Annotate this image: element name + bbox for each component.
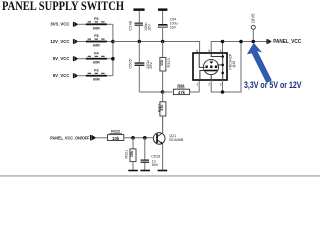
wire 3V3 row — [78, 23, 113, 25]
wire bus left vertical — [112, 24, 114, 75]
fuse F4 60R — [86, 51, 107, 64]
capacitor C94 (electrolytic) — [158, 11, 177, 42]
svg-text:4: 4 — [220, 49, 222, 53]
svg-text:PANEL_VCC_ON/OFF: PANEL_VCC_ON/OFF — [50, 135, 89, 140]
wire main rail left segment — [113, 42, 200, 54]
pin numbers top — [196, 49, 221, 53]
resistor R311 33k — [157, 92, 166, 133]
resistor R58 47k — [163, 84, 200, 95]
svg-text:10k: 10k — [130, 150, 134, 157]
ground C616 — [140, 170, 150, 172]
annotation blue arrow — [247, 43, 271, 82]
wire main rail right segment — [211, 42, 266, 54]
ground R221 — [128, 170, 138, 172]
svg-text:50V: 50V — [152, 163, 159, 167]
label FDC642P Q48 — [229, 53, 236, 69]
svg-text:1: 1 — [196, 83, 198, 87]
ground Q21 emitter — [158, 170, 168, 172]
svg-text:47k: 47k — [178, 90, 186, 95]
node drain bottom — [221, 90, 225, 94]
power tap bar C248 — [133, 8, 144, 11]
wire 12V row — [78, 41, 113, 43]
wire R222 to base — [124, 137, 154, 139]
node rail pin4 — [221, 40, 225, 44]
svg-text:5V_VCC: 5V_VCC — [53, 56, 70, 61]
connector PANEL_VCC — [266, 39, 301, 45]
transistor Q21 BC846B — [153, 133, 183, 145]
mosfet U box Q48 — [193, 53, 227, 80]
svg-text:60R: 60R — [93, 78, 100, 82]
capacitor C616 1n 50V — [141, 138, 161, 170]
svg-text:3,3V or 5V or 12V: 3,3V or 5V or 12V — [244, 80, 302, 90]
node base C616 — [143, 136, 147, 140]
resistor R313 11k (gate pull-up) — [160, 42, 171, 93]
pin numbers bottom — [196, 83, 221, 87]
node rail C248 — [138, 40, 142, 44]
svg-text:R58: R58 — [177, 84, 184, 88]
svg-text:60R: 60R — [93, 61, 100, 65]
svg-text:5V_VCC: 5V_VCC — [53, 73, 70, 78]
svg-text:PANEL_VCC: PANEL_VCC — [273, 39, 301, 45]
mosfet internal wiring — [199, 53, 224, 80]
connector 5V_VCC (row 4) — [53, 73, 78, 78]
wire ON/OFF to R222 — [96, 137, 107, 139]
svg-text:Q48: Q48 — [232, 61, 236, 68]
capacitor C605 — [128, 42, 153, 93]
node rail drain return — [239, 40, 243, 44]
svg-text:60R: 60R — [93, 44, 100, 48]
node rail C94 — [161, 40, 165, 44]
connector PANEL_VCC_ON/OFF — [50, 135, 96, 140]
svg-text:12V_VCC: 12V_VCC — [50, 39, 69, 44]
resistor R221 10k — [125, 138, 137, 170]
svg-text:R222: R222 — [111, 130, 120, 134]
node gate line junction — [161, 90, 165, 94]
page border bottom — [0, 175, 320, 176]
node bus 5V junction — [111, 57, 115, 61]
svg-text:C248: C248 — [127, 20, 132, 30]
wire pin drop x222.5 — [222, 42, 224, 54]
svg-text:PANEL SUPPLY SWITCH: PANEL SUPPLY SWITCH — [2, 0, 124, 13]
wire collector — [162, 116, 164, 133]
svg-text:3V3_VCC: 3V3_VCC — [50, 22, 69, 27]
svg-text:60R: 60R — [93, 26, 100, 30]
capacitor C248 — [127, 11, 151, 42]
node 19V5 — [251, 13, 256, 42]
svg-text:5: 5 — [208, 49, 210, 53]
mosfet Q48 symbol — [203, 59, 218, 74]
svg-text:16V: 16V — [170, 26, 177, 30]
svg-text:19V5: 19V5 — [251, 13, 256, 23]
node bus-rail junction — [111, 40, 115, 44]
wire 5V row 4 — [78, 75, 113, 77]
connector 5V_VCC (row 3) — [53, 56, 78, 61]
resistor R222 10k — [108, 130, 124, 141]
fuse F6 60R — [86, 17, 107, 30]
wire gate pin — [198, 80, 200, 92]
svg-text:2: 2 — [208, 83, 210, 87]
node rail 19V5 — [252, 40, 256, 44]
svg-text:33k: 33k — [160, 104, 164, 111]
svg-text:F3: F3 — [94, 68, 98, 72]
wire 5V row 3 — [78, 58, 113, 60]
svg-text:25V: 25V — [149, 62, 153, 69]
wire C605 to gate line — [139, 91, 162, 93]
connector 12V_VCC — [50, 39, 78, 44]
svg-text:3: 3 — [220, 83, 222, 87]
node base R221 — [131, 136, 135, 140]
connector 3V3_VCC — [50, 22, 78, 27]
svg-text:F5: F5 — [94, 34, 98, 38]
svg-text:C605: C605 — [128, 58, 133, 68]
svg-text:6: 6 — [196, 49, 198, 53]
svg-text:BC846B: BC846B — [169, 138, 184, 142]
title PANEL SUPPLY SWITCH — [2, 0, 124, 13]
svg-text:16V: 16V — [147, 24, 151, 31]
annotation text 3,3V or 5V or 12V — [244, 80, 302, 90]
svg-text:R313: R313 — [167, 58, 171, 67]
wire drain bottom return — [211, 42, 241, 93]
fuse F5 60R — [86, 34, 107, 47]
svg-text:R221: R221 — [125, 149, 129, 158]
power tap bar C94 — [158, 8, 167, 11]
svg-text:10k: 10k — [112, 136, 120, 141]
fuse F3 60R — [86, 68, 107, 81]
svg-text:11k: 11k — [160, 59, 164, 66]
svg-text:C616: C616 — [151, 155, 160, 159]
svg-text:F6: F6 — [94, 17, 98, 21]
wire emitter — [162, 144, 164, 170]
